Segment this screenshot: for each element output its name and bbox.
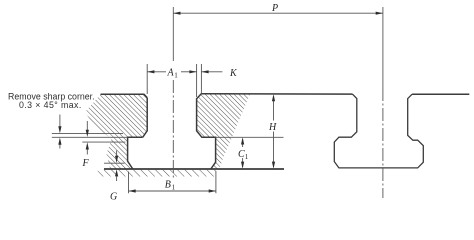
dimension A1 line + arrows [147, 71, 166, 73]
hatched section: right block [197, 94, 250, 169]
svg-text:1: 1 [245, 153, 249, 161]
nominal floor detail line (G) [104, 162, 125, 164]
table top surface (left of slot) [101, 94, 148, 97]
cavity right wall with chamfer [197, 94, 216, 169]
dimension P line with outward arrowheads [173, 12, 383, 14]
cavity ceiling left + left cavity wall + bottom chamfer [128, 137, 143, 169]
centerline slot 1 (solid ext above, dash-dot below) [172, 7, 174, 61]
centerline slot 2 (solid ext above, dash-dot below) [382, 7, 384, 88]
svg-text:K: K [229, 68, 238, 79]
dimension K: extension line [200, 64, 202, 94]
slot 1 floor line (long, extends right to break) [104, 168, 284, 170]
dimension H vertical with arrows [273, 96, 275, 121]
dimension G arrows (pair at x=116.6) [116, 151, 118, 157]
dimension F arrows (pair at x=87.3) [86, 121, 88, 130]
B1 dim line + outward arrows [129, 190, 216, 192]
relief detail line upper (0.3 x 45) [52, 133, 123, 135]
ceiling extension line to right (for C1) [216, 136, 284, 138]
dimension A1: extension lines [146, 64, 148, 94]
hatched section: bottom strip below slot floor [98, 170, 217, 177]
dimension B1: extension lines [128, 172, 130, 194]
svg-text:H: H [268, 122, 277, 133]
svg-text:0.3 × 45° max.: 0.3 × 45° max. [19, 100, 82, 110]
relief detail line lower (F) [82, 141, 125, 143]
K arrow + leader [201, 71, 222, 73]
svg-text:F: F [82, 158, 90, 169]
svg-text:B: B [165, 179, 171, 190]
ceiling extension line to left [52, 136, 128, 138]
slot 2 outline profile [334, 94, 423, 168]
svg-text:1: 1 [174, 71, 178, 79]
svg-text:G: G [110, 191, 117, 202]
slot 1 left wall [143, 98, 148, 138]
table top surface (right of slot 2) [412, 93, 469, 95]
svg-text:1: 1 [172, 183, 176, 191]
svg-text:P: P [271, 3, 278, 14]
hatched section: left block [85, 95, 147, 169]
svg-text:A: A [167, 67, 175, 78]
remove-sharp-corner note arrows (pair at x=59.9) [59, 115, 61, 127]
dimension C1 vertical with arrows [242, 139, 244, 147]
table top surface (right of slot 1, to slot 2) [201, 93, 352, 95]
